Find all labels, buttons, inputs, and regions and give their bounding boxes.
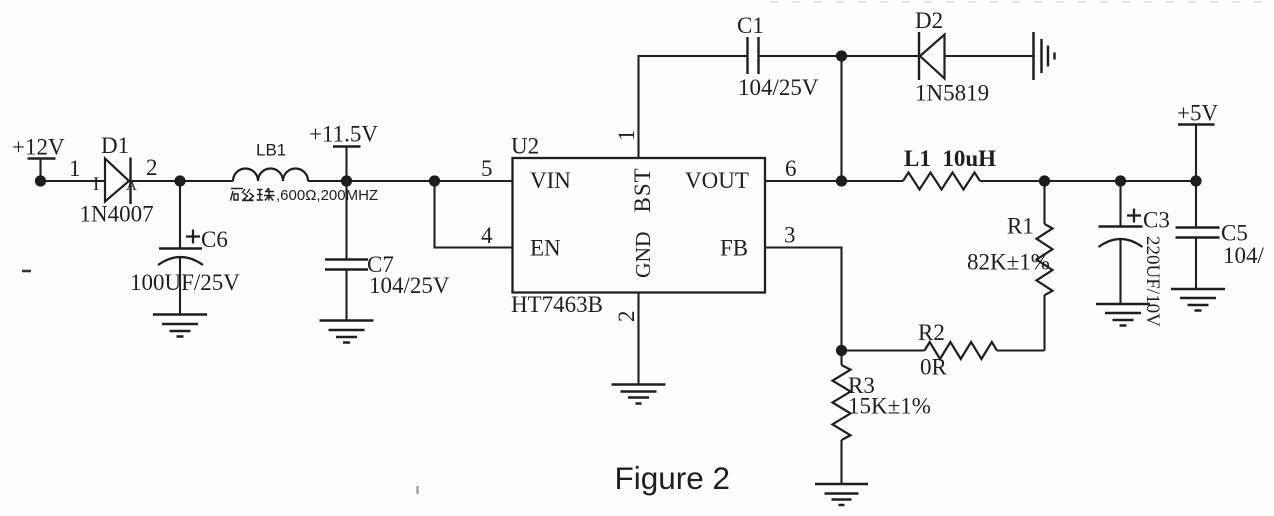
glyph 珠 bbox=[257, 188, 275, 201]
wire rail to +5V node bbox=[1121, 180, 1197, 182]
wire rail to C3 node bbox=[1045, 180, 1121, 182]
node EN branch junction bbox=[429, 175, 440, 186]
svg-text:L1 10uH: L1 10uH bbox=[904, 146, 996, 171]
node boost junction bbox=[836, 50, 847, 61]
wire D1 cathode to C6 node bbox=[131, 180, 181, 182]
ground (R3) bbox=[815, 484, 868, 505]
capacitor C7 bbox=[325, 181, 368, 321]
IC U2 HT7463B body bbox=[513, 158, 766, 293]
svg-text:,600Ω,200MHZ: ,600Ω,200MHZ bbox=[276, 187, 378, 204]
svg-text:C6: C6 bbox=[201, 227, 228, 252]
svg-text:D2: D2 bbox=[915, 8, 943, 33]
ground (C6) bbox=[153, 315, 207, 337]
wire VOUT pin to node bbox=[765, 180, 842, 182]
node +11.5V / C7 junction bbox=[341, 175, 352, 186]
svg-text:2: 2 bbox=[146, 155, 158, 180]
stray faint dashes top edge bbox=[770, 1, 1274, 3]
svg-text:C3: C3 bbox=[1143, 208, 1170, 233]
node input junction bbox=[35, 175, 46, 186]
wire boost node to VOUT node bbox=[840, 56, 842, 181]
node VOUT junction bbox=[836, 175, 847, 186]
svg-text:+12V: +12V bbox=[12, 135, 65, 160]
wire D2 to ground bbox=[945, 55, 1034, 57]
svg-text:104/25V: 104/25V bbox=[369, 273, 450, 298]
node L1/R1 junction bbox=[1039, 175, 1050, 186]
ground (C7) bbox=[320, 321, 374, 343]
svg-text:VIN: VIN bbox=[530, 168, 571, 193]
svg-text:+5V: +5V bbox=[1177, 101, 1218, 126]
svg-text:6: 6 bbox=[785, 156, 797, 181]
svg-text:C5: C5 bbox=[1221, 221, 1248, 246]
ground (D2, rotated) bbox=[1034, 32, 1055, 80]
power +11.5V bbox=[309, 122, 378, 182]
svg-text:I: I bbox=[93, 174, 99, 195]
svg-text:LB1: LB1 bbox=[256, 141, 286, 160]
svg-text:0R: 0R bbox=[920, 355, 948, 380]
wire L1 to R1 node bbox=[980, 180, 1045, 182]
wire C6 node to LB1 bbox=[180, 180, 233, 182]
svg-text:4: 4 bbox=[481, 223, 493, 248]
svg-text:1: 1 bbox=[69, 156, 81, 181]
svg-text:BST: BST bbox=[630, 167, 655, 212]
capacitor C1 bbox=[748, 37, 759, 74]
svg-text:1: 1 bbox=[614, 130, 639, 142]
ground (C5) bbox=[1171, 289, 1225, 311]
wire VOUT node to L1 bbox=[842, 180, 904, 182]
svg-text:3: 3 bbox=[784, 223, 796, 248]
wire BST to C1 bbox=[639, 56, 748, 158]
node C6 junction bbox=[174, 175, 185, 186]
capacitor C5 bbox=[1176, 181, 1220, 289]
power +12V bbox=[12, 135, 65, 182]
svg-text:220UF/10V: 220UF/10V bbox=[1142, 236, 1163, 327]
wire FB branch bbox=[765, 248, 842, 351]
resistor R2 bbox=[842, 342, 1045, 359]
diode D2 bbox=[919, 32, 945, 80]
svg-text:1N5819: 1N5819 bbox=[915, 81, 989, 106]
capacitor C3 bbox=[1099, 181, 1143, 304]
power +5V bbox=[1177, 101, 1218, 182]
svg-text:104/25V: 104/25V bbox=[738, 75, 819, 100]
label LB1 value ferrite bead 600ohm 200MHZ bbox=[231, 187, 379, 204]
capacitor C6 bbox=[158, 181, 203, 315]
diode D1 bbox=[93, 158, 137, 205]
wire GND pin 2 bbox=[637, 293, 639, 385]
svg-text:D1: D1 bbox=[101, 133, 129, 158]
svg-text:HT7463B: HT7463B bbox=[511, 292, 603, 317]
resistor R3 bbox=[833, 351, 851, 485]
wire EN branch bbox=[435, 181, 513, 248]
svg-text:5: 5 bbox=[481, 156, 493, 181]
inductor LB1 bbox=[233, 169, 308, 182]
svg-text:Figure 2: Figure 2 bbox=[615, 460, 731, 496]
svg-text:15K±1%: 15K±1% bbox=[848, 394, 931, 419]
svg-text:+11.5V: +11.5V bbox=[309, 122, 378, 147]
node FB/R2/R3 junction bbox=[836, 345, 847, 356]
svg-text:VOUT: VOUT bbox=[685, 168, 749, 193]
ground (U2 GND) bbox=[612, 385, 666, 404]
inductor L1 bbox=[903, 173, 980, 190]
stray mark (minus dash left edge) bbox=[22, 270, 31, 273]
glyph 磁 bbox=[231, 189, 254, 201]
wire boost node to D2 bbox=[842, 55, 920, 57]
wire C1 to boost node bbox=[759, 55, 842, 57]
wire LB1 to VIN pin bbox=[308, 180, 513, 182]
wire input node to D1 anode bbox=[41, 180, 105, 182]
stray mark (small tick bottom) bbox=[417, 486, 419, 494]
svg-text:FB: FB bbox=[720, 236, 748, 261]
svg-text:U2: U2 bbox=[511, 134, 539, 159]
svg-text:82K±1%: 82K±1% bbox=[967, 250, 1050, 275]
resistor R1 bbox=[1037, 181, 1053, 351]
svg-text:1N4007: 1N4007 bbox=[80, 202, 154, 227]
svg-text:EN: EN bbox=[530, 236, 561, 261]
svg-text:2: 2 bbox=[614, 311, 639, 323]
svg-text:R2: R2 bbox=[918, 320, 945, 345]
svg-text:C1: C1 bbox=[737, 13, 764, 38]
ground (C3) bbox=[1096, 304, 1150, 326]
svg-text:104/: 104/ bbox=[1223, 243, 1265, 268]
node C3 junction bbox=[1115, 175, 1126, 186]
svg-text:100UF/25V: 100UF/25V bbox=[130, 270, 240, 295]
svg-text:R1: R1 bbox=[1007, 214, 1034, 239]
node +5V junction bbox=[1190, 175, 1201, 186]
svg-text:GND: GND bbox=[631, 231, 655, 278]
